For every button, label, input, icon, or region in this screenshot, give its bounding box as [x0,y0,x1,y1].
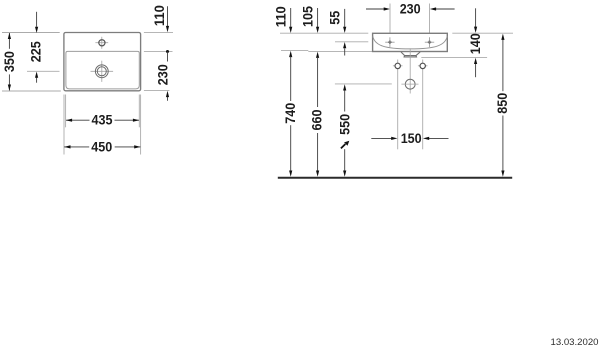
dimension 450 line [64,146,140,148]
dimension 660 [317,57,319,171]
faucet hole centerlines [95,37,108,49]
drain centerline (front view) [409,48,411,93]
svg-text:550: 550 [337,114,352,135]
drain inner circle [97,67,106,76]
dimension 850 [502,39,504,171]
extension line wall top right [452,32,513,34]
extension line 550 level [335,83,392,85]
arrow up 105 bottom / 660 top [316,52,319,58]
floor line [278,177,512,179]
svg-text:150: 150 [401,131,422,146]
dimension 435 arrows [66,119,139,122]
mounting hole lines down [398,60,423,150]
svg-text:740: 740 [283,102,298,123]
dimension 230 arrows (front view) [384,7,436,10]
extension line bottom edge (left) [2,90,61,92]
mounting hole right circle [420,63,425,68]
drain outlet horizontal centerline [401,83,418,85]
drain outlet circle (front view) [405,79,415,89]
svg-text:850: 850 [495,93,510,114]
svg-text:230: 230 [155,64,170,85]
tap hole mark left (front view) [385,37,394,47]
washbasin body (front view) [373,33,448,51]
svg-text:230: 230 [400,2,421,17]
mounting hole cross arms [393,65,428,67]
drain centerlines [91,61,114,82]
extension lines tap holes up (front view) [390,4,430,38]
dimension 110 (top view) tail + arrow [167,6,169,27]
dimension 150 [371,137,448,139]
dimension 230 tails (front view) [366,8,455,10]
dimension 450 arrows [64,145,140,148]
dimension 140 [475,8,477,27]
washbasin inner rim (top view) [66,51,139,89]
extension line wall top left [280,32,368,34]
junction dot 110/230 [166,50,169,53]
dimension 350 line [8,33,10,90]
extension lines 450 [64,95,141,155]
extension line bottom edge B (105) [308,50,372,52]
svg-text:55: 55 [328,10,343,24]
svg-text:450: 450 [91,139,112,154]
drain trapezoid (front view) [401,52,420,56]
mounting hole left circle [395,63,400,68]
washbasin outer rim (top view) [64,33,141,91]
dimension 550 [344,90,346,171]
svg-text:110: 110 [274,6,289,27]
svg-text:105: 105 [301,6,316,27]
svg-text:660: 660 [310,109,325,130]
faucet hole circle [99,40,105,46]
dimension 740 [290,56,292,171]
extension line bottom edge A (110) [281,50,308,52]
dimension 350 arrows [8,33,11,91]
svg-text:13.03.2020: 13.03.2020 [550,337,598,347]
extension line top edge (right of top view) [144,31,173,33]
drain outer circle [95,65,108,78]
extension line 140 bottom [421,56,487,58]
dimension 230 (top view) line/tails [167,51,169,100]
extension line top edge (left) [2,32,60,34]
extension line inner rim top (right of top view) [144,50,173,52]
dimension 225 tails and arrows [36,12,38,83]
svg-text:350: 350 [2,51,17,72]
svg-text:435: 435 [92,113,113,128]
svg-text:225: 225 [28,41,43,62]
svg-text:140: 140 [468,33,483,54]
extension line tap hole axis (55) [335,41,368,43]
basin interior curve [373,36,447,49]
dimension 435 line [66,119,139,121]
extension lines 435 [66,95,140,128]
adjustable-height arrow near 550 [341,144,346,148]
arrow up 110 bottom / 740 top [289,51,292,57]
arrow up 55 bottom + tail [343,42,346,48]
extension line bottom (right of top view) [144,90,170,92]
tap hole mark right (front view) [425,37,434,47]
extension line drain center (left) [27,70,60,72]
svg-text:110: 110 [152,5,167,26]
